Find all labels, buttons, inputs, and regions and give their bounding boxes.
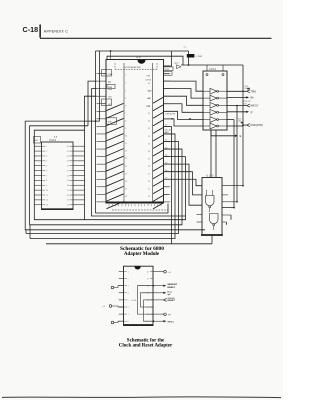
svg-text:RES: RES	[165, 74, 170, 76]
wire U17 to U15-4 gate 1	[164, 81, 204, 91]
svg-text:5: 5	[46, 166, 47, 168]
svg-text:27: 27	[148, 174, 150, 176]
svg-text:17: 17	[125, 188, 127, 190]
svg-text:C1: C1	[184, 47, 186, 49]
output Q row	[227, 111, 253, 114]
svg-text:11: 11	[46, 195, 48, 197]
svg-text:22: 22	[67, 166, 69, 168]
svg-text:100: 100	[238, 120, 241, 122]
svg-text:U 15-4: U 15-4	[209, 69, 217, 71]
svg-text:4: 4	[46, 161, 47, 163]
svg-text:19: 19	[67, 180, 69, 182]
wire U17 to U15-4 gate 6	[164, 119, 204, 126]
wire data bus lower loop 4	[26, 142, 179, 234]
svg-text:32: 32	[148, 136, 150, 138]
U19 right pin stubs	[150, 272, 153, 322]
svg-text:7: 7	[128, 314, 129, 316]
wire bus between U16 and U17 v4	[92, 89, 186, 216]
svg-text:30: 30	[148, 151, 150, 153]
net label OSC	[165, 129, 172, 134]
output WR SY row	[227, 101, 259, 108]
svg-text:Clock and Reset Adapter: Clock and Reset Adapter	[119, 344, 173, 349]
svg-text:13: 13	[125, 158, 127, 160]
svg-text:8: 8	[125, 120, 126, 122]
wire staircase to U15-3 left pin 1	[164, 179, 203, 185]
inverter gate U15-4a	[203, 88, 227, 94]
svg-text:VMA: VMA	[103, 73, 108, 76]
inverter gate U15-4d	[203, 109, 227, 115]
caption clock and reset adapter	[119, 339, 173, 349]
svg-text:10: 10	[46, 190, 48, 192]
wire U17 pin1 to top rail	[164, 51, 172, 66]
svg-text:7: 7	[125, 113, 126, 115]
svg-text:12: 12	[125, 151, 127, 153]
svg-text:R/W: R/W	[146, 106, 150, 108]
svg-text:D0: D0	[165, 125, 167, 127]
node junctions row phi1	[171, 118, 191, 120]
svg-text:3: 3	[128, 286, 129, 288]
wire lower loop 6 to U15-3	[46, 126, 212, 243]
svg-text:15: 15	[147, 279, 149, 281]
svg-text:10: 10	[125, 136, 127, 138]
svg-text:DBE: DBE	[108, 89, 113, 91]
svg-text:16: 16	[125, 181, 127, 183]
svg-text:Adapter Module: Adapter Module	[124, 252, 160, 257]
inverter gate U15-4e	[203, 117, 227, 123]
IC U15-3 dual gate body	[201, 176, 223, 236]
svg-text:DSR (DTR): DSR (DTR)	[251, 124, 263, 127]
inverter gate U15-4f	[203, 123, 227, 129]
svg-text:39: 39	[148, 83, 150, 85]
svg-text:D3: D3	[165, 147, 167, 149]
output +5 top right	[153, 270, 172, 273]
input RESET	[153, 298, 175, 302]
power VCC label	[174, 63, 181, 69]
svg-text:13: 13	[46, 205, 48, 207]
page bottom scan edge	[2, 396, 281, 399]
wire U15-4 out to U15-3 b	[215, 130, 217, 178]
svg-text:15: 15	[125, 173, 127, 175]
svg-text:35: 35	[148, 113, 150, 115]
output DSR row	[227, 118, 263, 127]
svg-text:3: 3	[46, 156, 47, 158]
U17 left pins	[97, 74, 107, 202]
wire bus between U16 and U17 v2	[96, 204, 169, 214]
svg-text:2: 2	[125, 75, 126, 77]
svg-text:25: 25	[67, 151, 69, 153]
svg-text:MEMORY: MEMORY	[168, 284, 178, 286]
wire bus between U16 and U17 v5	[85, 96, 97, 220]
svg-text:2: 2	[46, 151, 47, 153]
svg-text:Q: Q	[251, 111, 253, 114]
wire address bus left nested loop 2	[30, 126, 182, 225]
U15-3 left pin stubs	[197, 215, 203, 223]
output TRIG row	[227, 86, 256, 93]
wire U17 to U15-4 gate 4	[164, 104, 204, 113]
U17 lower right pin stubs	[164, 187, 169, 195]
svg-text:20: 20	[67, 175, 69, 177]
terminal input 3	[111, 321, 123, 324]
U17 pin number labels	[125, 75, 150, 206]
svg-text:29: 29	[148, 158, 150, 160]
svg-text:19: 19	[125, 204, 127, 206]
svg-text:18: 18	[67, 185, 69, 187]
svg-text:E or: E or	[168, 291, 172, 293]
output E or phi2	[153, 291, 172, 296]
wire staircase to U15-3 left pin 2	[164, 172, 203, 195]
svg-text:VCC: VCC	[174, 63, 179, 65]
IC U17 40-pin 6800 adapter socket body	[106, 56, 164, 203]
U15-4 power pins	[206, 74, 224, 76]
svg-text:(CPU): (CPU)	[146, 79, 152, 81]
svg-text:DBE: DBE	[108, 87, 113, 89]
U19 internal loop 1	[138, 286, 154, 314]
svg-text:16: 16	[147, 271, 149, 273]
output test point	[153, 313, 172, 316]
wire net vertical A	[242, 65, 244, 187]
svg-text:SCLK: SCLK	[148, 91, 154, 93]
node junction top wire	[110, 50, 112, 59]
wire U17 to U15-4 gate 3	[164, 96, 204, 105]
U15-3 right pins	[222, 186, 243, 225]
svg-text:TRIG: TRIG	[251, 90, 257, 93]
svg-text:2: 2	[128, 279, 129, 281]
svg-text:18: 18	[125, 196, 127, 198]
svg-text:100: 100	[245, 88, 248, 90]
U17 bottom pin number ticks	[109, 204, 161, 206]
wire address bus left nested loop 1	[25, 121, 205, 230]
svg-text:1: 1	[128, 271, 129, 273]
svg-text:17: 17	[67, 190, 69, 192]
svg-text:VSS: VSS	[165, 69, 170, 71]
IC U19 clock-reset body	[124, 266, 154, 325]
U19 left pin stubs	[119, 272, 127, 322]
wire gate5 to bus	[227, 119, 234, 121]
wire U17 to U15-4 gate 2	[164, 89, 204, 98]
svg-text:C-18: C-18	[23, 25, 39, 34]
U16-2 pin number labels	[46, 146, 69, 207]
svg-text:21: 21	[67, 170, 69, 172]
output MEMORY READY	[153, 284, 178, 289]
svg-text:8: 8	[46, 180, 47, 182]
svg-text:4: 4	[128, 293, 129, 295]
svg-text:14: 14	[67, 205, 69, 207]
svg-text:5: 5	[125, 98, 126, 100]
boxed net labels right of U17	[164, 67, 173, 76]
svg-text:.1 CER: .1 CER	[195, 56, 202, 58]
gate U15-3a	[206, 190, 215, 212]
svg-text:6: 6	[128, 307, 129, 309]
svg-text:23: 23	[148, 204, 150, 206]
svg-text:40 PIN ADAPTER: 40 PIN ADAPTER	[125, 66, 142, 69]
svg-text:15: 15	[67, 200, 69, 202]
U17 inner pin-field columns	[124, 63, 153, 202]
svg-text:16: 16	[67, 195, 69, 197]
inverter gate U15-4b	[203, 95, 227, 101]
svg-text:100: 100	[244, 103, 247, 105]
svg-text:23: 23	[67, 161, 69, 163]
U17 left pin-field hatching	[107, 103, 124, 208]
svg-text:D2: D2	[165, 140, 167, 142]
svg-text:11: 11	[125, 143, 127, 145]
wire address bus left nested loop 3	[34, 130, 185, 220]
wire gate5 tap down to U15-3	[222, 120, 234, 208]
terminal input 1	[111, 286, 123, 289]
svg-text:12: 12	[46, 200, 48, 202]
svg-text:4: 4	[125, 90, 126, 92]
caption schematic for 6800	[120, 246, 164, 257]
U17 interior signal labels	[108, 73, 153, 108]
svg-text:TSC: TSC	[108, 97, 113, 99]
capacitor C1 bypass	[184, 47, 203, 65]
svg-text:24: 24	[148, 196, 150, 198]
svg-text:8: 8	[128, 321, 129, 323]
wire U17 to U15-4 gate 5	[164, 111, 204, 119]
U19 internal loop 2	[141, 293, 154, 307]
net label box left bus	[34, 137, 41, 144]
svg-text:7: 7	[46, 175, 47, 177]
svg-text:NMI: NMI	[108, 121, 112, 123]
U19 internal loop 3	[144, 300, 154, 321]
svg-text:1: 1	[46, 146, 47, 148]
U16-2 right pins	[70, 146, 85, 205]
wire U15-4 out to U15-3 a	[210, 130, 212, 178]
svg-text:DSR (DTR): DSR (DTR)	[166, 114, 176, 116]
svg-text:A/D: A/D	[148, 97, 152, 100]
svg-text:24: 24	[67, 156, 69, 158]
svg-text:3: 3	[125, 83, 126, 85]
output E row	[211, 130, 242, 138]
svg-text:BA: BA	[251, 97, 255, 100]
svg-text:6: 6	[46, 170, 47, 172]
connector U16-2 body	[42, 140, 74, 210]
svg-text:14: 14	[125, 166, 127, 168]
svg-text:5: 5	[128, 300, 129, 302]
dashed line below U17	[112, 209, 168, 211]
wire second top rail	[96, 51, 184, 213]
svg-text:APPENDIX C: APPENDIX C	[44, 30, 68, 34]
wire bus between U16 and U17 v3	[88, 81, 97, 126]
net labels data bus right pins	[165, 125, 167, 180]
wire data bus lower loop 5	[30, 134, 175, 239]
svg-text:READY: READY	[168, 286, 176, 289]
wire staircase to U15-3 left pin 3	[164, 164, 203, 205]
inverter gate U15-4c	[203, 102, 227, 108]
U17 right pins	[164, 66, 171, 202]
IC U15-4 hex inverter body	[203, 69, 227, 130]
svg-text:34: 34	[148, 121, 150, 123]
wire net vertical B	[236, 105, 238, 203]
wire bus between U16 and U17 v1	[96, 51, 100, 121]
svg-text:WR SY: WR SY	[251, 105, 259, 108]
U17 inner dashed 6800 outline	[115, 63, 157, 69]
svg-text:6: 6	[125, 105, 126, 107]
svg-text:26: 26	[148, 181, 150, 183]
terminal +5V input	[102, 305, 123, 309]
svg-text:33: 33	[148, 128, 150, 130]
gate U15-3b	[210, 214, 219, 231]
power VCC rail	[181, 64, 243, 71]
svg-text:28: 28	[148, 166, 150, 168]
svg-text:31: 31	[148, 143, 150, 145]
svg-text:9: 9	[46, 185, 47, 187]
output BA row	[227, 96, 254, 99]
svg-text:9: 9	[125, 128, 126, 130]
svg-text:25: 25	[148, 189, 150, 191]
output SYS CLK	[153, 320, 175, 323]
svg-text:D4: D4	[165, 155, 167, 157]
U16-2 left pins	[34, 146, 45, 205]
U17 boxed net labels left	[102, 70, 117, 125]
svg-text:U 15-3: U 15-3	[207, 176, 215, 178]
U17 right pin-field hatching	[153, 97, 163, 208]
svg-text:SYS C: SYS C	[168, 321, 175, 323]
U19 pin numbers	[128, 271, 149, 323]
svg-text:26: 26	[67, 146, 69, 148]
svg-text:RESET: RESET	[168, 300, 176, 302]
svg-text:U 16-2: U 16-2	[49, 140, 57, 142]
page header C-18 APPENDIX C	[23, 25, 272, 39]
